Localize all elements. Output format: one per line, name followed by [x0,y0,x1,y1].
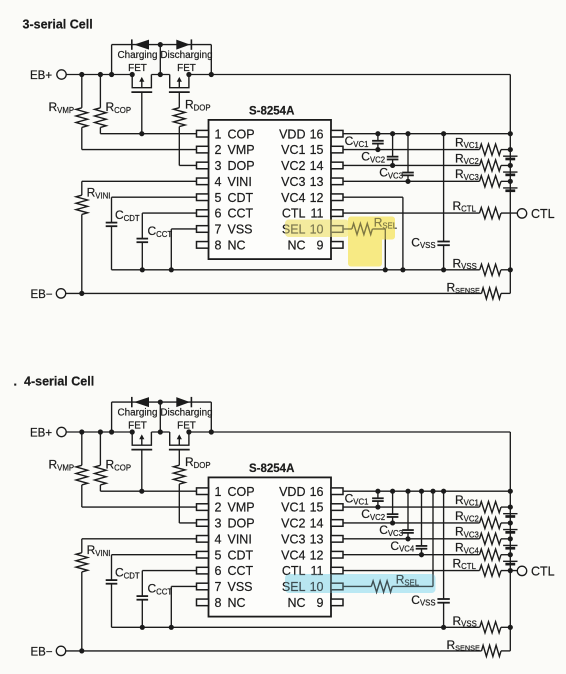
svg-text:6: 6 [215,207,222,221]
svg-text:CCDT: CCDT [115,208,140,223]
svg-text:DOP: DOP [228,517,255,531]
svg-text:13: 13 [310,532,324,546]
svg-text:CCT: CCT [228,564,254,578]
svg-text:CVSS: CVSS [411,235,435,250]
svg-text:S-8254A: S-8254A [249,106,294,118]
svg-text:16: 16 [310,485,324,499]
svg-text:Discharging: Discharging [160,50,212,61]
svg-text:RDOP: RDOP [185,98,211,113]
svg-text:VINI: VINI [228,175,252,189]
svg-text:CCCT: CCCT [148,224,173,239]
svg-text:VC2: VC2 [281,159,305,173]
svg-text:COP: COP [228,485,255,499]
svg-text:Charging: Charging [117,50,157,61]
svg-text:1: 1 [215,127,222,141]
svg-text:CVC4: CVC4 [390,539,415,554]
svg-text:RVSS: RVSS [453,614,477,629]
svg-text:RSENSE: RSENSE [447,638,481,653]
svg-text:VC1: VC1 [281,143,305,157]
svg-text:NC: NC [287,596,305,610]
svg-text:CVC1: CVC1 [345,134,369,149]
svg-text:16: 16 [310,127,324,141]
svg-text:NC: NC [287,238,305,252]
svg-text:CCCT: CCCT [148,582,173,597]
svg-text:RCOP: RCOP [106,458,132,473]
svg-text:VMP: VMP [228,143,255,157]
svg-text:VDD: VDD [279,127,305,141]
svg-text:RCTL: RCTL [453,556,477,571]
svg-text:EB+: EB+ [30,70,52,82]
svg-text:RVINI: RVINI [87,543,111,558]
svg-text:CVC2: CVC2 [361,507,385,522]
svg-text:RVINI: RVINI [87,186,111,201]
svg-text:FET: FET [177,421,196,432]
svg-text:15: 15 [310,501,324,515]
svg-text:CTL: CTL [531,565,555,579]
svg-text:6: 6 [215,564,222,578]
svg-text:14: 14 [310,159,324,173]
svg-text:9: 9 [317,238,324,252]
svg-text:CVC3: CVC3 [379,166,403,181]
svg-text:RVC2: RVC2 [455,151,479,166]
svg-text:5: 5 [215,548,222,562]
svg-text:VC3: VC3 [281,175,305,189]
svg-text:3: 3 [215,159,222,173]
svg-text:1: 1 [215,485,222,499]
svg-text:11: 11 [311,207,324,221]
svg-text:DOP: DOP [228,159,255,173]
svg-text:RCOP: RCOP [106,100,132,115]
svg-text:CVC1: CVC1 [345,492,369,507]
svg-text:VC3: VC3 [281,532,305,546]
svg-text:FET: FET [128,421,147,432]
svg-text:RCTL: RCTL [453,199,477,214]
svg-text:5: 5 [215,191,222,205]
svg-text:13: 13 [310,175,324,189]
svg-text:2: 2 [215,501,222,515]
svg-text:S-8254A: S-8254A [249,463,294,475]
svg-text:4-serial Cell: 4-serial Cell [24,375,94,389]
svg-text:VINI: VINI [228,532,252,546]
svg-text:RVSS: RVSS [453,256,477,271]
svg-text:RVMP: RVMP [49,458,75,473]
svg-text:2: 2 [215,143,222,157]
svg-text:15: 15 [310,143,324,157]
svg-text:FET: FET [177,63,196,74]
svg-text:FET: FET [128,63,147,74]
svg-text:NC: NC [228,238,246,252]
svg-text:3: 3 [215,517,222,531]
svg-text:CTL: CTL [531,207,555,221]
svg-text:.: . [14,375,17,389]
svg-text:8: 8 [215,596,222,610]
svg-text:RSENSE: RSENSE [447,280,481,295]
svg-text:9: 9 [317,596,324,610]
svg-text:EB−: EB− [31,647,53,659]
svg-text:4: 4 [215,175,222,189]
svg-text:EB+: EB+ [30,428,52,440]
svg-text:VSS: VSS [228,580,253,594]
svg-text:CCT: CCT [228,207,254,221]
svg-text:VSS: VSS [228,223,253,237]
svg-text:CVC3: CVC3 [379,523,403,538]
svg-text:RVC4: RVC4 [455,541,480,556]
svg-text:CDT: CDT [228,191,254,205]
svg-text:RVMP: RVMP [49,100,75,115]
svg-text:RDOP: RDOP [185,455,211,470]
svg-text:4: 4 [215,532,222,546]
svg-text:CCDT: CCDT [115,566,140,581]
svg-text:12: 12 [310,191,324,205]
svg-text:VMP: VMP [228,501,255,515]
svg-text:RVC1: RVC1 [455,493,479,508]
svg-text:RVC3: RVC3 [455,525,479,540]
svg-text:VC1: VC1 [281,501,305,515]
svg-text:7: 7 [215,580,222,594]
svg-text:RVC1: RVC1 [455,135,479,150]
svg-text:CVSS: CVSS [411,593,435,608]
svg-text:VC4: VC4 [281,548,305,562]
svg-text:NC: NC [228,596,246,610]
svg-text:VDD: VDD [279,485,305,499]
svg-text:RVC3: RVC3 [455,167,479,182]
svg-text:RVC2: RVC2 [455,509,479,524]
svg-text:VC4: VC4 [281,191,305,205]
svg-text:COP: COP [228,127,255,141]
svg-text:12: 12 [310,548,324,562]
svg-text:Discharging: Discharging [160,408,212,419]
svg-text:EB−: EB− [31,289,53,301]
svg-text:CTL: CTL [282,207,306,221]
svg-text:8: 8 [215,238,222,252]
svg-text:7: 7 [215,223,222,237]
svg-text:14: 14 [310,517,324,531]
svg-text:Charging: Charging [117,408,157,419]
svg-text:CVC2: CVC2 [361,150,385,165]
svg-text:VC2: VC2 [281,517,305,531]
svg-text:3-serial Cell: 3-serial Cell [23,18,93,32]
svg-text:CDT: CDT [228,548,254,562]
